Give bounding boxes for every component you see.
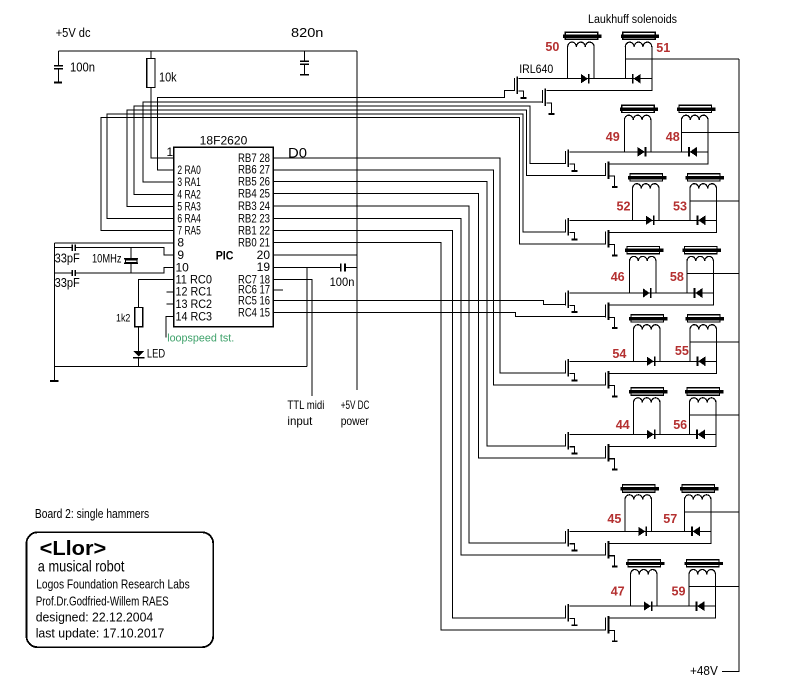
wire ground line [55, 365, 307, 367]
wire RB2 pin23 to Q14 gate [273, 218, 605, 555]
svg-text:10MHz: 10MHz [92, 254, 122, 266]
solenoid 57 [680, 485, 718, 532]
wire RA1 pin3 to Q2 gate [143, 102, 542, 182]
solenoid 44 [629, 388, 667, 435]
wire OSC2 pin10 [55, 268, 174, 273]
wire Q10 drain line row 5 [610, 361, 717, 373]
LED D17 [133, 351, 144, 366]
wire RC5 pin16 to Q7 gate [273, 301, 565, 305]
svg-text:Prof.Dr.Godfried-Willem RAES: Prof.Dr.Godfried-Willem RAES [36, 595, 169, 609]
wire Q16 drain line row 8 [610, 606, 716, 618]
info box [27, 532, 214, 647]
diode D53 [697, 216, 706, 226]
svg-text:33pF: 33pF [55, 252, 81, 266]
solenoid 59 [685, 560, 723, 607]
svg-text:TTL midi: TTL midi [287, 398, 324, 412]
wire left ground rail [54, 243, 56, 380]
wire +48V tap row 4 [687, 273, 739, 275]
wire +48V tap row 6 [690, 414, 740, 416]
transistor Q5 IRL640 [565, 218, 578, 240]
solenoid 56 [685, 388, 723, 435]
wire Q12 drain line row 6 [610, 434, 716, 446]
svg-text:820n: 820n [291, 25, 323, 40]
diode D49 [638, 147, 647, 157]
svg-text:44: 44 [616, 417, 631, 432]
svg-text:47: 47 [611, 584, 625, 599]
wire Q5 drain line row 3 [570, 219, 717, 221]
wire RA3 pin5 to Q4 gate [127, 110, 605, 207]
svg-text:33pF: 33pF [55, 276, 81, 290]
wire +48V tap row 5 [690, 341, 739, 343]
solenoid 54 [629, 315, 667, 362]
diode D50 [581, 74, 590, 84]
svg-text:14 RC3: 14 RC3 [176, 309, 213, 323]
diode D58 [694, 288, 703, 298]
transistor Q12 IRL640 [605, 444, 617, 470]
solenoid 49 [620, 105, 658, 152]
wire RA2 pin4 to Q3 gate [134, 106, 565, 195]
wire Q6 drain line row 3 [610, 220, 717, 232]
wire Q11 drain line row 6 [570, 433, 717, 435]
resistor R1 10k [147, 51, 155, 88]
svg-text:LED: LED [147, 347, 165, 361]
svg-text:a musical robot: a musical robot [38, 559, 125, 576]
wire pin 8 Vss [55, 242, 174, 244]
svg-text:1: 1 [167, 145, 174, 159]
svg-text:56: 56 [673, 417, 687, 432]
capacitor C1 100n [54, 51, 63, 84]
svg-text:input: input [287, 414, 313, 428]
svg-text:+5V dc: +5V dc [56, 25, 91, 40]
diode D47 [644, 601, 653, 611]
transistor Q8 IRL640 [605, 303, 617, 329]
wire OSC1 pin9 [55, 248, 174, 256]
wire Q4 drain line row 2 [610, 152, 708, 164]
svg-text:48: 48 [666, 129, 680, 144]
wire pin 17 stub [273, 289, 283, 291]
transistor Q3 IRL640 [565, 150, 578, 172]
solenoid 46 [625, 247, 663, 294]
diode D51 [632, 74, 641, 84]
svg-text:50: 50 [545, 39, 559, 54]
svg-text:last update: 17.10.2017: last update: 17.10.2017 [36, 626, 165, 641]
solenoid 52 [628, 174, 666, 221]
svg-text:<Llor>: <Llor> [40, 538, 107, 560]
wire +5V rail [58, 50, 357, 52]
wire RB0 pin21 to Q16 gate [273, 242, 605, 629]
wire Vss pin19 [273, 267, 340, 366]
solenoid 51 [621, 32, 659, 78]
wire RA5 pin7 to Q6 gate [101, 118, 605, 244]
svg-text:1k2: 1k2 [116, 313, 130, 325]
svg-text:IRL640: IRL640 [519, 62, 553, 76]
svg-text:loopspeed tst.: loopspeed tst. [167, 333, 234, 345]
diode D55 [697, 357, 706, 367]
diode D56 [696, 430, 705, 440]
wire Q9 drain line row 5 [570, 360, 717, 362]
wire RC4 pin15 to Q8 gate [273, 313, 605, 317]
solenoid 50 [563, 32, 601, 78]
transistor Q15 IRL640 [565, 604, 578, 626]
wire R1 to pin 1 MCLR [151, 88, 174, 158]
svg-text:54: 54 [612, 346, 627, 361]
wire pin 13 stub [167, 303, 174, 305]
svg-text:100n: 100n [70, 61, 95, 75]
wire +48V tap row 7 [685, 511, 740, 513]
wire +48V tap row 2 [682, 131, 740, 133]
wire +5V down to Vdd [356, 51, 358, 390]
wire +48V tap row 8 [689, 586, 739, 588]
transistor Q14 IRL640 [605, 541, 617, 567]
diode D46 [643, 288, 652, 298]
transistor Q1 IRL640 [514, 76, 527, 98]
wire Q13 drain line row 7 [570, 530, 712, 532]
transistor Q13 IRL640 [565, 529, 578, 551]
svg-text:51: 51 [656, 40, 670, 55]
svg-text:Laukhuff solenoids: Laukhuff solenoids [588, 14, 677, 26]
capacitor C4 33pF [72, 245, 76, 251]
transistor Q6 IRL640 [605, 230, 617, 256]
wire Vdd pin20 [273, 254, 357, 256]
wire RB5 pin26 to Q11 gate [273, 182, 565, 447]
svg-text:18F2620: 18F2620 [200, 134, 248, 148]
wire RA4 pin6 to Q5 gate [107, 114, 565, 232]
wire C3 to Vdd line [346, 266, 357, 268]
solenoid 45 [621, 485, 659, 532]
ground [50, 380, 58, 382]
transistor Q2 IRL640 [542, 88, 555, 114]
wire RB7 pin28 to Q9 gate [273, 158, 565, 373]
wire Q3 drain line row 2 [570, 151, 709, 153]
solenoid 48 [677, 105, 715, 152]
wire Q8 drain line row 4 [610, 293, 714, 305]
svg-text:designed: 22.12.2004: designed: 22.12.2004 [36, 610, 154, 625]
wire +48V tap row 1 [625, 58, 739, 60]
wire Q15 drain line row 8 [570, 605, 716, 607]
wire RB6 pin27 to Q10 gate [273, 170, 605, 385]
diode D45 [638, 527, 647, 537]
wire RB1 pin22 to Q15 gate [273, 231, 565, 618]
transistor Q11 IRL640 [565, 432, 578, 454]
capacitor C3 100n [340, 263, 346, 271]
svg-text:46: 46 [611, 269, 625, 284]
solenoid 55 [686, 315, 724, 362]
svg-text:+48V: +48V [690, 664, 718, 678]
transistor Q7 IRL640 [565, 291, 578, 313]
svg-text:59: 59 [672, 584, 686, 599]
svg-text:RC4 15: RC4 15 [238, 306, 270, 320]
transistor Q16 IRL640 [605, 616, 617, 642]
transistor Q10 IRL640 [605, 371, 617, 397]
transistor Q4 IRL640 [605, 162, 617, 188]
solenoid 58 [683, 247, 721, 294]
wire RA0 pin2 to Q1 gate [158, 90, 514, 170]
svg-text:Board 2: single hammers: Board 2: single hammers [35, 507, 149, 521]
diode D48 [688, 147, 697, 157]
svg-text:PIC: PIC [216, 249, 234, 263]
diode D57 [691, 527, 700, 537]
wire Q7 drain line row 4 [570, 292, 714, 294]
svg-text:D0: D0 [288, 146, 307, 161]
wire pin 14 loopspeed test point [166, 317, 174, 338]
wire RC7 pin18 midi input [273, 279, 312, 396]
svg-text:55: 55 [675, 343, 689, 358]
svg-text:52: 52 [617, 199, 631, 214]
wire RB3 pin24 to Q13 gate [273, 206, 565, 543]
capacitor C5 33pF [72, 270, 76, 276]
op-amp U1 PIC 18F2620 body [174, 147, 274, 327]
svg-text:100n: 100n [330, 275, 355, 289]
svg-text:45: 45 [607, 511, 621, 526]
diode D52 [646, 216, 655, 226]
wire Q2 drain line row 1 [547, 79, 652, 91]
svg-text:58: 58 [670, 269, 684, 284]
diode D54 [647, 357, 656, 367]
solenoid 53 [686, 174, 724, 221]
wire Q1 drain line row 1 [519, 78, 652, 80]
svg-text:53: 53 [673, 199, 687, 214]
svg-text:Logos Foundation Research Labs: Logos Foundation Research Labs [36, 578, 190, 592]
wire pin 12 stub [167, 291, 174, 293]
svg-text:+5V DC: +5V DC [341, 398, 370, 412]
solenoid 47 [626, 560, 664, 607]
resistor R2 1k2 [135, 279, 174, 351]
crystal X1 10MHz [124, 248, 138, 273]
svg-text:10k: 10k [159, 71, 177, 85]
transistor Q9 IRL640 [565, 359, 578, 381]
svg-text:57: 57 [663, 511, 677, 526]
wire Q14 drain line row 7 [610, 531, 711, 543]
capacitor C2 820n [300, 51, 309, 76]
wire +48V tap row 3 [690, 200, 739, 202]
wire RB4 pin25 to Q12 gate [273, 194, 605, 459]
wire +48V rail [722, 59, 739, 671]
svg-text:power: power [341, 414, 369, 428]
diode D44 [647, 430, 656, 440]
diode D59 [696, 601, 705, 611]
svg-text:49: 49 [606, 129, 620, 144]
